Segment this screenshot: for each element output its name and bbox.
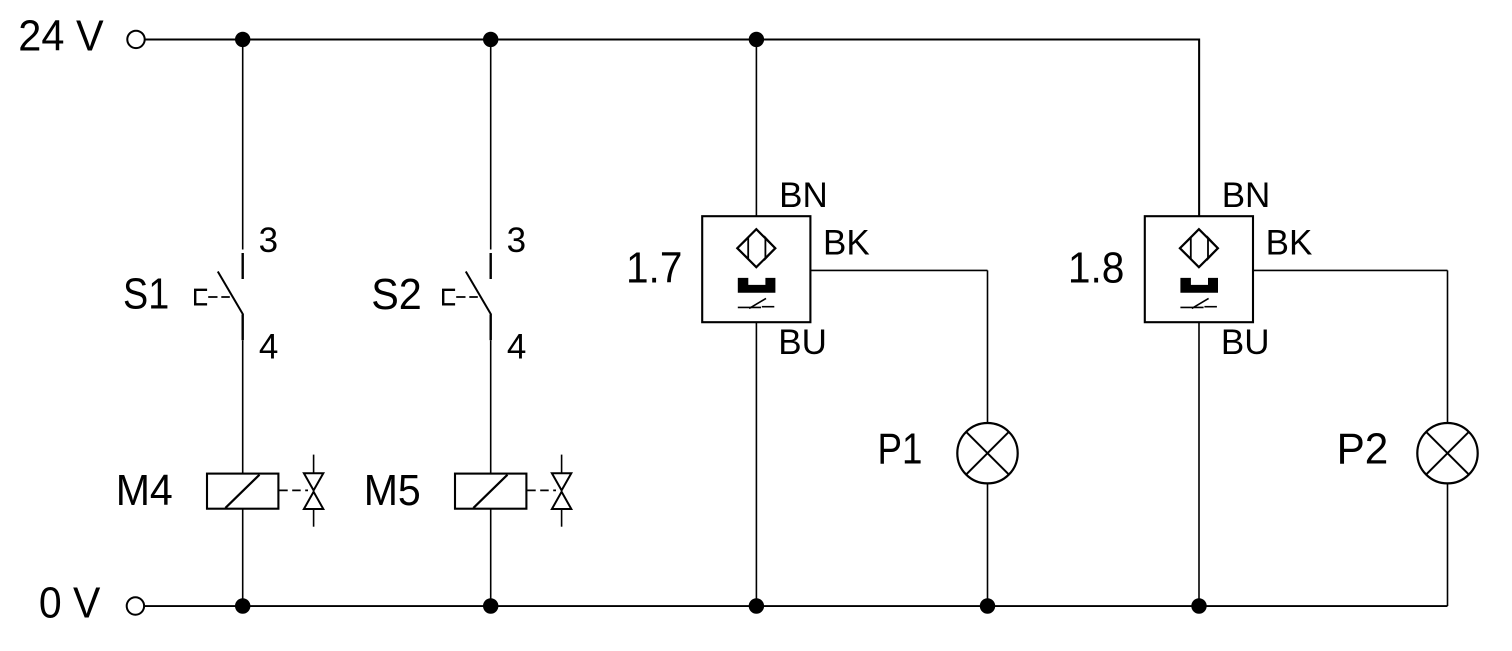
svg-text:S2: S2 [371, 270, 422, 319]
svg-text:P2: P2 [1337, 424, 1389, 473]
svg-text:24 V: 24 V [18, 12, 104, 61]
svg-text:P1: P1 [878, 424, 923, 473]
svg-text:1.7: 1.7 [626, 243, 682, 292]
svg-text:4: 4 [507, 327, 526, 366]
svg-text:M5: M5 [364, 466, 421, 515]
svg-text:3: 3 [259, 221, 278, 260]
svg-text:3: 3 [507, 221, 526, 260]
svg-text:0 V: 0 V [39, 578, 101, 627]
svg-text:S1: S1 [123, 270, 169, 319]
svg-text:4: 4 [259, 327, 278, 366]
svg-text:1.8: 1.8 [1068, 243, 1125, 292]
svg-text:M4: M4 [116, 466, 173, 515]
